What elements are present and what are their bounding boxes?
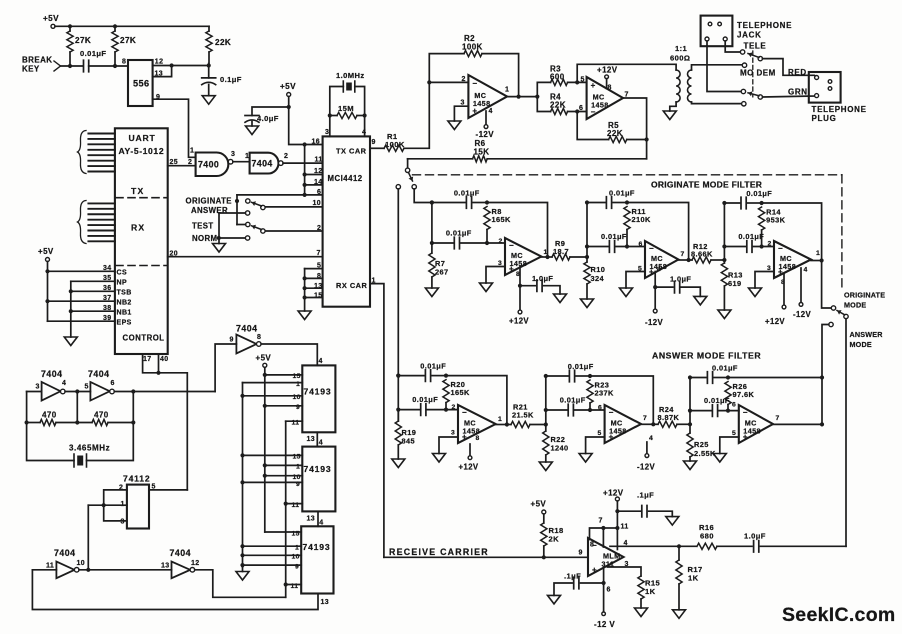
svg-text:165K: 165K [451, 388, 471, 397]
wire to 74112 pin5 [159, 373, 188, 490]
svg-text:74193: 74193 [304, 464, 332, 474]
svg-text:+12V: +12V [597, 66, 618, 75]
svg-text:7: 7 [681, 251, 685, 258]
svg-text:0.01μF: 0.01μF [601, 232, 627, 241]
74112 input ties [104, 490, 127, 521]
svg-text:UART: UART [129, 133, 156, 143]
svg-text:+12V: +12V [459, 463, 479, 472]
contact tele [740, 50, 744, 54]
svg-text:CS: CS [117, 270, 128, 277]
svg-text:3: 3 [325, 129, 329, 136]
svg-text:SeekIC.com: SeekIC.com [782, 604, 896, 626]
output wire answer stage2 [641, 423, 653, 425]
feedback wire originate stage3 [762, 203, 822, 261]
wire +5V rail [55, 25, 209, 27]
junction stage2 input (answer) [544, 422, 548, 426]
svg-text:+12V: +12V [765, 317, 785, 326]
junction answer feedback/switch [820, 375, 824, 379]
pin 4 / 1.0uF / -12V (originate stage2) [654, 272, 656, 310]
svg-text:267: 267 [435, 268, 449, 277]
pin 8 / 1.0uF / +12V (originate stage1) [519, 267, 521, 311]
ground (+in) originate stage3 [755, 272, 774, 289]
wire to originate filter input [414, 189, 432, 203]
wire to answer filter input [397, 189, 399, 376]
feedback wire answer stage2 [590, 376, 653, 424]
svg-text:22K: 22K [215, 38, 231, 47]
svg-text:−: − [462, 408, 467, 417]
junction R3/R4 split [535, 95, 539, 99]
resistor 22K [208, 26, 210, 31]
pin 4 -12V (answer stage2) [646, 442, 648, 454]
contact answer [245, 211, 249, 215]
svg-text:470: 470 [94, 411, 109, 420]
svg-text:21.5K: 21.5K [512, 411, 534, 420]
wire RED to plug [763, 59, 817, 77]
junction R16/R17 [677, 544, 681, 548]
contact to answer filter [396, 185, 400, 189]
svg-text:97.6K: 97.6K [733, 390, 755, 399]
svg-text:MODE: MODE [844, 301, 866, 310]
wire line-out at y159 to R6 [487, 158, 646, 160]
svg-text:4: 4 [319, 358, 323, 365]
svg-text:+5V: +5V [280, 82, 296, 91]
wire break key to C1 [61, 65, 84, 67]
svg-text:2K: 2K [549, 535, 560, 544]
counter 74193 #1 [302, 365, 335, 432]
svg-text:7404: 7404 [170, 548, 192, 558]
svg-text:8: 8 [476, 435, 480, 442]
svg-text:+: + [591, 81, 596, 90]
junction R4/R5 [575, 109, 579, 113]
svg-text:6: 6 [579, 105, 583, 112]
svg-text:9: 9 [372, 139, 376, 146]
wire answer/norm to ground [218, 213, 220, 238]
svg-text:TX CAR: TX CAR [336, 147, 367, 156]
junction R2/output [517, 95, 521, 99]
svg-text:7404: 7404 [41, 369, 63, 379]
svg-text:953K: 953K [766, 216, 786, 225]
svg-text:BREAK: BREAK [22, 56, 52, 65]
resistor R7 267 (input shunt) [430, 200, 434, 204]
svg-text:5: 5 [598, 430, 602, 437]
wire invA out to invB in [65, 391, 90, 393]
output wire U1 [507, 96, 537, 98]
svg-text:1: 1 [816, 250, 820, 257]
svg-text:845: 845 [402, 437, 416, 446]
contact modem (ring) [742, 102, 746, 106]
output wire answer stage3 [773, 423, 822, 425]
svg-text:6: 6 [598, 405, 602, 412]
op-amp U1 MC1458 (TX) [468, 75, 507, 118]
node originate contact [235, 199, 239, 203]
switch hook pole 2 [758, 95, 762, 99]
svg-text:7404: 7404 [236, 324, 258, 334]
svg-text:6: 6 [639, 241, 643, 248]
svg-text:0.01μF: 0.01μF [704, 396, 730, 405]
wire osc to clock inverter [215, 344, 236, 392]
svg-text:74112: 74112 [123, 474, 150, 484]
svg-text:TEST: TEST [192, 222, 214, 231]
brace RX bus [78, 201, 87, 244]
op-amp MC1458 originate stage2 [645, 241, 678, 278]
svg-text:4: 4 [649, 435, 653, 442]
stage2 input vertical (answer) [545, 376, 547, 425]
op-amp U2 MC1458 (line driver) [587, 77, 623, 119]
junction stage3 input (answer) [688, 422, 692, 426]
svg-text:7: 7 [776, 415, 780, 422]
svg-text:−: − [509, 241, 514, 250]
svg-text:1458: 1458 [609, 427, 627, 436]
wire C1 to 556 pin8 [89, 65, 128, 67]
svg-text:ANSWER MODE FILTER: ANSWER MODE FILTER [652, 351, 761, 361]
output wire U2 / down to R6 line [623, 98, 647, 159]
resistor R10 324 (shunt) [586, 257, 588, 262]
bus C (pin 11s) [285, 421, 287, 597]
svg-text:AY-5-1012: AY-5-1012 [119, 146, 165, 156]
secondary bottom wire to lower modem contact [692, 102, 742, 104]
svg-text:210K: 210K [632, 215, 652, 224]
svg-text:1240: 1240 [551, 444, 569, 453]
svg-text:7: 7 [599, 518, 603, 525]
output wire originate stage1 [541, 256, 547, 258]
svg-text:600Ω: 600Ω [670, 54, 690, 63]
svg-text:11: 11 [315, 157, 323, 164]
svg-text:4.0μF: 4.0μF [257, 114, 279, 123]
svg-text:8: 8 [590, 542, 594, 549]
svg-text:8.87K: 8.87K [658, 413, 680, 422]
svg-text:1K: 1K [688, 574, 699, 583]
svg-text:40: 40 [160, 356, 169, 363]
junction 22K / 0.1uF [207, 63, 211, 67]
op-amp MC1458 answer stage1 [458, 405, 496, 443]
gang link dashed [752, 51, 754, 97]
secondary top wire to MODEM contact [692, 65, 743, 70]
svg-text:16: 16 [312, 139, 321, 146]
svg-text:3: 3 [121, 519, 125, 526]
svg-text:680: 680 [700, 532, 714, 541]
svg-text:0.01μF: 0.01μF [420, 362, 446, 371]
divider TX section [116, 197, 167, 199]
junction 27K-1 bottom [68, 64, 72, 68]
svg-text:-12V: -12V [637, 463, 655, 472]
primary bottom to ground [670, 102, 676, 111]
ground (+in) originate stage1 [486, 267, 505, 284]
svg-text:TSB: TSB [117, 290, 132, 297]
svg-text:2: 2 [499, 238, 503, 245]
pin 8 +12V (originate stage3) [783, 274, 785, 305]
resistor R17 1K (load) [678, 546, 680, 560]
svg-text:556: 556 [133, 79, 150, 89]
ground (+in) answer stage1 [439, 437, 458, 454]
wire clock to 74193 #1 pin4 [261, 344, 317, 365]
svg-text:4: 4 [804, 267, 808, 274]
svg-text:12: 12 [191, 560, 200, 567]
top feedback wire U2 to transformer [577, 64, 676, 82]
switch mode select (pole 1) [261, 205, 265, 209]
junction rail/R 27K-2 [113, 24, 117, 28]
svg-text:6: 6 [111, 380, 115, 387]
contact (jack-line) [741, 89, 745, 93]
wire mode switch common down to output cap [845, 319, 847, 547]
svg-text:13: 13 [321, 599, 330, 606]
output bubble 7404 [279, 161, 284, 166]
svg-text:17: 17 [143, 356, 152, 363]
svg-text:27K: 27K [75, 36, 91, 45]
svg-text:237K: 237K [595, 389, 615, 398]
pin 4 -12V (originate stage3) [800, 268, 802, 303]
svg-text:1.0μF: 1.0μF [532, 274, 553, 283]
svg-text:2: 2 [768, 241, 772, 248]
wire divider B out to bus [195, 570, 286, 598]
svg-text:619: 619 [728, 279, 742, 288]
svg-text:100K: 100K [385, 140, 405, 149]
svg-text:470: 470 [42, 411, 57, 420]
resistor R25 2.55K (shunt) [689, 424, 691, 433]
svg-text:1K: 1K [645, 587, 656, 596]
svg-text:7404: 7404 [54, 548, 76, 558]
svg-text:1: 1 [505, 87, 509, 94]
bus B +5V [264, 367, 266, 532]
svg-text:9: 9 [230, 337, 234, 344]
feedback wire originate stage1 [487, 203, 548, 258]
svg-text:15K: 15K [474, 147, 490, 156]
ground (+in) originate stage2 [626, 272, 645, 289]
resistor 27K #1 [69, 26, 71, 31]
feedback wire originate stage2 [627, 203, 689, 261]
svg-text:4: 4 [489, 108, 493, 115]
svg-text:2: 2 [188, 159, 192, 166]
modem chip MC14412 [323, 136, 370, 306]
svg-text:1458: 1458 [510, 259, 528, 268]
junction stage2 input [585, 255, 589, 259]
timer U 556 [128, 60, 153, 106]
svg-text:5: 5 [581, 77, 585, 84]
ground (control pins) [64, 337, 77, 346]
svg-text:11: 11 [46, 563, 54, 570]
output bubble 7400 [228, 159, 233, 164]
op-amp MC1458 originate stage1 [505, 238, 541, 275]
wire tap to 470 junction [76, 392, 78, 423]
svg-text:−: − [743, 408, 748, 417]
svg-text:2: 2 [452, 404, 456, 411]
svg-text:DEM: DEM [757, 69, 776, 78]
svg-text:7: 7 [317, 250, 321, 257]
contact to originate filter [412, 185, 416, 189]
svg-text:4: 4 [657, 266, 661, 273]
svg-text:10: 10 [77, 560, 86, 567]
contact answer mode [829, 322, 833, 326]
ground (+in) answer stage2 [586, 437, 605, 454]
junction R2/R1/pin2 [427, 80, 431, 84]
wire +5V to pin 16 [289, 97, 323, 145]
svg-text:27K: 27K [120, 36, 136, 45]
junction pin12/pin13 [170, 63, 174, 67]
svg-text:10: 10 [313, 200, 322, 207]
svg-text:MO: MO [740, 69, 754, 78]
svg-text:7400: 7400 [198, 160, 219, 170]
svg-text:324: 324 [591, 274, 605, 283]
svg-text:NB1: NB1 [117, 310, 132, 317]
svg-text:1.0μF: 1.0μF [670, 275, 691, 284]
svg-text:+12V: +12V [603, 489, 624, 498]
svg-text:3.465MHz: 3.465MHz [69, 444, 110, 453]
svg-text:0.01μF: 0.01μF [568, 362, 594, 371]
wire 74193 1-2 link [316, 432, 318, 446]
svg-text:1458: 1458 [779, 262, 797, 271]
svg-text:ANSWER: ANSWER [850, 330, 884, 339]
ground (+in) answer stage3 [720, 437, 739, 454]
op-amp MC1458 originate stage3 [774, 241, 811, 278]
pin 3 ground (U1) [454, 106, 468, 121]
svg-text:−: − [778, 244, 783, 253]
svg-text:8: 8 [608, 85, 612, 92]
feedback wire answer stage1 [446, 376, 507, 425]
svg-text:TELE: TELE [744, 42, 767, 51]
svg-text:GRN: GRN [788, 88, 808, 97]
output wire originate stage2 [678, 259, 688, 261]
resistor R13 619 (shunt) [723, 260, 725, 263]
svg-text:R25: R25 [694, 440, 709, 449]
junction R3/feedback [575, 80, 579, 84]
wire 74193 2-3 link [317, 511, 319, 526]
svg-text:NORM: NORM [192, 234, 217, 243]
svg-text:0.01μF: 0.01μF [80, 49, 106, 58]
wire osc loop left [27, 391, 42, 393]
ground (4.0uF) [246, 126, 259, 135]
svg-text:EPS: EPS [117, 320, 132, 327]
ground (bus A) [236, 572, 249, 581]
svg-text:4: 4 [62, 380, 66, 387]
svg-text:2: 2 [284, 153, 288, 160]
svg-text:5: 5 [732, 430, 736, 437]
break key contact symbol [54, 61, 61, 71]
svg-text:MODE: MODE [850, 340, 872, 349]
stage3 input vertical [723, 203, 725, 260]
svg-text:13: 13 [307, 516, 316, 523]
inverter 7404 (top) [250, 153, 279, 174]
ground (pins 5-15) [298, 311, 311, 320]
svg-text:0.01μF: 0.01μF [746, 189, 772, 198]
wire 74112 to osc2 output [87, 505, 89, 570]
op-amp MC1458 answer stage2 [605, 405, 641, 443]
switch hook pole 1 [758, 56, 762, 60]
svg-text:3: 3 [451, 430, 455, 437]
wire tap right [132, 392, 134, 423]
svg-text:RX CAR: RX CAR [336, 281, 367, 290]
wire receive carrier line [384, 556, 588, 558]
svg-text:+: + [592, 565, 597, 574]
pin 6 -12V (MLM311) [603, 568, 605, 612]
output wire originate stage3 [811, 260, 822, 262]
svg-text:0.01μF: 0.01μF [609, 189, 635, 198]
wire jack left pin to lower switch contact [707, 41, 741, 92]
bus +5V pins 16-12-14-6 [304, 145, 306, 195]
junction 4.0uF tap [287, 105, 291, 109]
resistor R22 1240 (shunt) [545, 425, 547, 432]
svg-text:+5V: +5V [256, 354, 272, 363]
ground (0.1uF) [202, 96, 215, 105]
svg-text:0.01μF: 0.01μF [712, 364, 738, 373]
wire GRN to plug [763, 96, 817, 97]
stage2 input vertical [586, 203, 588, 258]
svg-text:1458: 1458 [743, 427, 761, 436]
svg-text:7404: 7404 [88, 369, 110, 379]
divider control section [116, 265, 167, 267]
svg-text:ORIGINATE MODE FILTER: ORIGINATE MODE FILTER [651, 180, 762, 190]
wire NP-NB1 bus to ground [70, 281, 72, 337]
svg-text:TX: TX [131, 186, 144, 196]
bus A (counter data) [242, 383, 244, 567]
svg-text:74193: 74193 [303, 542, 331, 552]
svg-text:6: 6 [732, 402, 736, 409]
output wire answer stage1 [496, 424, 507, 426]
telephone jack [701, 16, 733, 47]
feedback wire answer stage3 [728, 378, 822, 425]
resistor 27K #2 [114, 26, 116, 31]
svg-text:9: 9 [579, 550, 583, 557]
svg-text:-12 V: -12 V [594, 620, 615, 629]
svg-text:13: 13 [307, 436, 316, 443]
svg-text:ORIGINATE: ORIGINATE [186, 197, 232, 206]
resistor R19 845 (input shunt) [397, 376, 399, 421]
telephone plug [809, 72, 841, 103]
counter 74193 #3 [301, 526, 333, 593]
svg-text:5: 5 [85, 384, 89, 391]
wire jack right pin to TELE contact [725, 41, 740, 52]
contact norm [245, 236, 249, 240]
junction R5/output [645, 137, 649, 141]
dashed border originate filter [413, 174, 842, 176]
svg-text:0.01μF: 0.01μF [446, 229, 472, 238]
svg-text:RED: RED [788, 68, 807, 77]
brace TX bus [78, 131, 87, 174]
svg-text:KEY: KEY [22, 65, 40, 74]
svg-text:−: − [649, 244, 654, 253]
svg-text:8: 8 [257, 334, 261, 341]
wire 7404 out to MC14412 pin11 [283, 162, 323, 164]
nand gate 7400 [196, 153, 229, 177]
svg-text:1: 1 [498, 416, 502, 423]
switch mode (originate/answer) [844, 314, 848, 318]
capacitor 4.0uF [252, 107, 289, 116]
transformer secondary winding [688, 70, 692, 102]
contact originate [246, 199, 250, 203]
svg-text:7404: 7404 [252, 159, 273, 169]
wire originate output to mode switch [822, 261, 832, 309]
svg-text:PLUG: PLUG [812, 114, 837, 123]
wire divider chain [79, 569, 172, 571]
svg-text:+12V: +12V [509, 317, 529, 326]
svg-text:+5V: +5V [531, 500, 547, 509]
switch originate/answer select [407, 159, 409, 168]
wire invB out [114, 391, 215, 393]
svg-text:1.0μF: 1.0μF [744, 532, 766, 541]
wire feedback loop bottom [32, 569, 56, 571]
junction input cap o1 [430, 241, 434, 245]
junction rail/R 27K-1 [68, 24, 72, 28]
74112 pin5 wire [149, 489, 187, 491]
svg-text:6: 6 [607, 587, 611, 594]
svg-text:CONTROL: CONTROL [123, 334, 165, 343]
svg-text:JACK: JACK [737, 31, 762, 40]
pins 7/8 tie loop [590, 528, 604, 547]
svg-text:0.1μF: 0.1μF [220, 75, 242, 84]
wire to pin2 [429, 81, 468, 83]
junction stage3 input [722, 258, 726, 262]
UART AY-5-1012 [115, 128, 168, 354]
svg-text:1458: 1458 [473, 99, 491, 108]
svg-text:1.0MHz: 1.0MHz [336, 71, 365, 80]
